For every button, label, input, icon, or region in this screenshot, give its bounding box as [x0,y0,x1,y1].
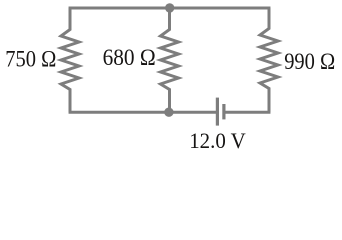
svg-text:750 Ω: 750 Ω [5,46,56,72]
wire bottom left segment [69,111,216,114]
battery V1 long plate (positive) [216,98,219,126]
svg-text:680 Ω: 680 Ω [103,45,156,71]
node A top junction dot [165,3,174,12]
resistor R2 680 ohm middle branch [161,8,179,112]
node B bottom junction dot [164,108,173,117]
wire top horizontal [69,7,271,10]
svg-text:990 Ω: 990 Ω [284,49,335,75]
wire bottom right segment [225,111,270,114]
resistor R3 990 ohm right branch [260,8,278,112]
svg-text:12.0 V: 12.0 V [189,128,246,153]
resistor R1 750 ohm left branch [61,8,79,112]
battery V1 short plate (negative) [222,104,225,119]
